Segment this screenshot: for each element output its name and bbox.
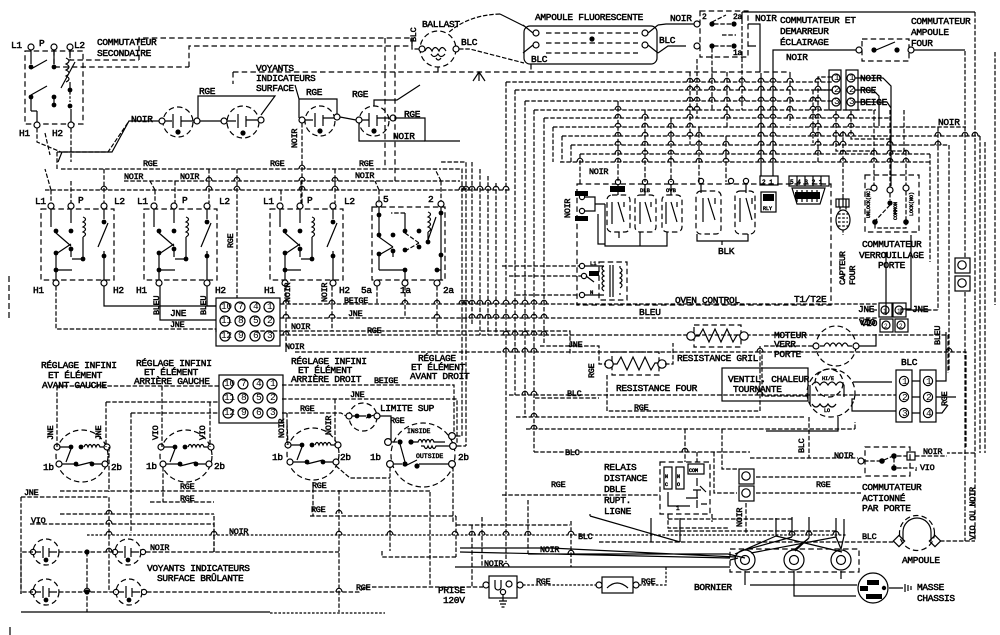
svg-text:NOIR: NOIR [938, 117, 960, 128]
svg-text:3: 3 [834, 96, 840, 107]
wire JNE bus [280, 286, 877, 318]
wire RGE long bus [280, 286, 948, 373]
wire NOIR bus (to oven control) [254, 331, 570, 355]
wire harness cascade row4 [534, 110, 876, 452]
svg-text:P: P [39, 38, 45, 49]
wire SW2-H1 to J1 [160, 286, 216, 320]
wire element bottom drops [336, 466, 453, 551]
wire RGE row to moteur [607, 346, 813, 411]
relay K-LINE (relais distance) [660, 462, 710, 514]
wire left riser from secondaire [37, 121, 129, 169]
svg-text:BLC: BLC [578, 532, 593, 542]
svg-text:LOCK(NO): LOCK(NO) [909, 192, 915, 216]
svg-text:LIMITE SUP: LIMITE SUP [380, 403, 435, 414]
svg-text:2: 2 [926, 392, 932, 403]
right-edge connector JR1 [955, 258, 970, 273]
wire bornier to masse [745, 571, 857, 596]
relay DOOR RLY [761, 192, 776, 212]
wire JNE to resistance four [540, 346, 606, 364]
svg-text:DBLE: DBLE [604, 484, 626, 495]
wire prise to fuse [523, 584, 596, 586]
svg-text:1b: 1b [272, 452, 283, 463]
svg-text:RGE: RGE [199, 86, 216, 97]
wire ballast right to bus [459, 49, 524, 63]
svg-text:L1: L1 [263, 196, 274, 207]
svg-text:JNE: JNE [568, 340, 583, 350]
resistor RESISTANCE FOUR [605, 352, 666, 375]
svg-text:H2: H2 [113, 285, 124, 296]
wire RGE rows [60, 447, 430, 516]
wire RGE drop to J1 [236, 169, 238, 298]
fuse F1 (line break) [596, 577, 639, 593]
door lock switch SW-VERROUILLAGE [865, 175, 919, 232]
svg-text:ARRIÈRE GAUCHE: ARRIÈRE GAUCHE [134, 376, 210, 387]
wire JNE left loop [21, 497, 109, 594]
ballast (lamp ballast coil) [419, 31, 459, 67]
svg-text:DEMARREUR: DEMARREUR [780, 26, 829, 37]
relay K2 [635, 179, 656, 232]
switch SW-SECONDAIRE (commutateur secondaire) [25, 44, 83, 128]
svg-text:L2: L2 [74, 40, 85, 51]
svg-text:LIGNE: LIGNE [604, 506, 632, 517]
svg-text:OVB: OVB [666, 187, 677, 194]
svg-text:RGE: RGE [270, 159, 285, 169]
indicator lamp DS5 (surface brulante) [30, 539, 59, 565]
wire oven control left feeds [502, 266, 582, 295]
wire fuse right [639, 567, 666, 585]
svg-text:SURFACE BRÛLANTE: SURFACE BRÛLANTE [157, 573, 244, 584]
svg-text:RGE: RGE [390, 416, 405, 426]
svg-text:OUTSIDE: OUTSIDE [416, 453, 443, 460]
svg-text:RGE: RGE [359, 159, 374, 169]
svg-text:VIO OU NOIR: VIO OU NOIR [968, 487, 978, 540]
svg-text:1: 1 [849, 72, 855, 83]
svg-text:RGE: RGE [312, 481, 327, 491]
svg-text:L1: L1 [137, 196, 148, 207]
capteur four sensor [836, 199, 850, 235]
indicator lamp DS8 [113, 579, 142, 605]
wire harness cascade row2 [515, 90, 833, 395]
svg-text:O: O [677, 482, 680, 488]
svg-text:VIO: VIO [198, 425, 208, 440]
svg-text:NOIR: NOIR [285, 342, 304, 352]
svg-text:NOIR: NOIR [355, 171, 374, 181]
switch SW-AMPOULE-FOUR [856, 39, 914, 61]
wire BEIGE row to element [282, 385, 454, 433]
right-edge connector JR2 [955, 276, 970, 291]
svg-text:BORNIER: BORNIER [694, 582, 732, 593]
svg-text:1: 1 [834, 72, 840, 83]
svg-text:NOIR: NOIR [324, 416, 334, 435]
wire harness cascade row1 [506, 82, 833, 562]
svg-text:2: 2 [902, 392, 908, 403]
svg-text:RELAIS: RELAIS [604, 462, 637, 473]
receptacle PRISE 120V [483, 576, 523, 607]
svg-text:OVEN CONTROL: OVEN CONTROL [675, 295, 740, 306]
indicator lamp DS3 (surface) [299, 106, 340, 136]
wire fan to J4 [766, 332, 956, 431]
svg-text:1b: 1b [146, 461, 157, 472]
door switch SW-PORTE [858, 447, 915, 476]
switch starter (demarreur eclairage) [694, 11, 748, 57]
wires J2 rows to RS1/RS2 [57, 386, 219, 447]
svg-text:COMMUTATEUR: COMMUTATEUR [862, 239, 922, 250]
switch block SW1 (surface L1/P/L2 - H1/H2) [41, 203, 114, 286]
connector J4 (fan 1-2-3) [896, 370, 912, 422]
wire lamp row2 [21, 591, 116, 593]
display module (clock) [792, 188, 825, 204]
wire DS1-DS2 junction [200, 120, 221, 122]
connector JM2 [739, 486, 754, 501]
svg-text:RGE: RGE [352, 89, 369, 100]
svg-text:CAPTEUR: CAPTEUR [838, 251, 848, 285]
wire DS4 right to NOIR bus [396, 118, 460, 141]
infinite switch RS3 (arriere droit) [285, 428, 341, 480]
wire demarreur to bus [748, 24, 760, 72]
wire JNE row [865, 309, 930, 311]
wire ballast left from bus [412, 38, 419, 49]
wire far right edge [985, 52, 995, 453]
svg-text:NOIR: NOIR [290, 129, 300, 148]
svg-text:C: C [665, 482, 668, 488]
svg-text:H2: H2 [52, 128, 63, 139]
svg-text:2: 2 [834, 84, 840, 95]
wire BLK bracket [697, 234, 748, 245]
svg-text:BLC: BLC [901, 357, 918, 368]
svg-text:RGE: RGE [551, 480, 566, 490]
wire NOIR to DS1 [58, 121, 159, 162]
wire harness row NOIR long [553, 127, 966, 310]
svg-text:1b: 1b [43, 462, 54, 473]
svg-text:5 4 3 2 1: 5 4 3 2 1 [790, 179, 823, 186]
svg-text:RUPT.: RUPT. [604, 495, 631, 506]
wire harness cascade row5 [544, 118, 890, 344]
wire harness row9 [580, 154, 930, 262]
wire NOIR drop to RS3 [287, 413, 288, 445]
wire SW1-H2 to J1 [104, 286, 216, 306]
relay K1 (oven control) [607, 179, 630, 232]
infinite switch RS1 (avant gauche) [54, 430, 110, 482]
wire fluo right to starter [658, 24, 694, 53]
wire RGE feed DS4 [374, 85, 420, 106]
wire fan to left [762, 352, 807, 396]
svg-text:2b: 2b [111, 462, 122, 473]
svg-text:JNE: JNE [170, 308, 187, 319]
svg-text:RGE: RGE [143, 159, 158, 169]
svg-text:FOUR: FOUR [848, 266, 858, 285]
svg-text:NOIR: NOIR [320, 283, 330, 302]
svg-text:NOIR: NOIR [589, 167, 608, 177]
wire bottom rail dotted [270, 612, 385, 614]
wire top bus drops [385, 38, 395, 181]
svg-text:H1: H1 [33, 285, 44, 296]
page edge dash left [8, 276, 10, 320]
wire BEIGE bus [280, 286, 877, 304]
svg-text:5a: 5a [361, 285, 372, 296]
svg-text:PAR PORTE: PAR PORTE [862, 503, 911, 514]
oven control module box [577, 184, 831, 305]
wire rows above bornier [668, 519, 836, 531]
wire DS3-DS4 junction [340, 117, 356, 120]
svg-text:H2: H2 [215, 285, 226, 296]
wire verrouillage drops [874, 139, 906, 187]
svg-text:BLEU: BLEU [933, 326, 943, 345]
svg-text:NOIR: NOIR [131, 114, 153, 125]
wire NOIR long bus (lamps to right) [146, 514, 483, 592]
svg-text:1a: 1a [733, 49, 743, 58]
svg-text:1: 1 [902, 376, 908, 387]
svg-text:COMMUTATEUR: COMMUTATEUR [97, 37, 157, 48]
terminal block BORNIER [730, 549, 859, 572]
svg-text:AMPOULE FLUORESCENTE: AMPOULE FLUORESCENTE [535, 12, 644, 23]
svg-text:RGE: RGE [226, 233, 236, 248]
svg-text:2: 2 [702, 13, 707, 22]
svg-text:BLEU: BLEU [639, 307, 661, 318]
svg-text:NOIR: NOIR [180, 172, 199, 182]
svg-text:COMMUTATEUR ET: COMMUTATEUR ET [780, 15, 856, 26]
svg-text:JNE: JNE [46, 425, 56, 440]
wire oven control risers [618, 101, 726, 182]
svg-text:RGE: RGE [311, 505, 326, 515]
wire right fan rows [509, 395, 896, 452]
wire motor right to VIO conn [859, 235, 911, 346]
leader line from SW-SECONDAIRE [45, 133, 50, 155]
svg-text:H1: H1 [136, 285, 147, 296]
chassis ground plug MASSE [858, 573, 888, 603]
svg-text:SECONDAIRE: SECONDAIRE [97, 48, 152, 59]
wire SW1-H1 to J1 [56, 286, 216, 333]
svg-text:RESISTANCE FOUR: RESISTANCE FOUR [616, 383, 698, 394]
svg-text:FOUR: FOUR [911, 38, 933, 49]
svg-text:UNLOCK(NC): UNLOCK(NC) [866, 188, 872, 218]
wire NOIR dotted bus to right [87, 534, 847, 536]
svg-text:L1: L1 [11, 40, 22, 51]
oven control input terminals [575, 191, 605, 221]
svg-text:BLK: BLK [718, 246, 735, 257]
wire fluo bottom bus BLC [233, 64, 790, 125]
svg-text:NOIR: NOIR [277, 419, 287, 438]
svg-text:JNE: JNE [170, 320, 185, 330]
wire J3 leads right [855, 78, 891, 186]
svg-text:ARRIÈRE DROIT: ARRIÈRE DROIT [291, 374, 362, 385]
wire harness row8 [571, 145, 949, 371]
svg-text:HI/E: HI/E [822, 376, 834, 382]
wire mid risers [382, 492, 571, 587]
svg-text:NOIR: NOIR [393, 131, 415, 142]
wire door switch leads [903, 456, 947, 470]
wire NOIR DS4 left [359, 123, 425, 141]
svg-text:H2: H2 [339, 285, 350, 296]
svg-text:VIO: VIO [920, 463, 935, 473]
svg-text:H1: H1 [264, 285, 275, 296]
svg-text:3: 3 [902, 408, 908, 419]
wire right edge drop to ampoule [947, 12, 975, 541]
svg-text:PORTE: PORTE [774, 349, 802, 360]
connector J1 (surface harness upper) [216, 298, 280, 346]
relay K4 [696, 178, 721, 234]
svg-text:RGE: RGE [816, 480, 831, 490]
svg-text:SURFACE: SURFACE [256, 83, 294, 94]
svg-text:RGE: RGE [356, 583, 371, 593]
svg-text:2: 2 [849, 84, 855, 95]
wire vertical x339 [338, 490, 340, 612]
wire surface bus RGE row [45, 169, 510, 190]
wire door switch NOIR row [750, 457, 858, 459]
wire capteur riser [842, 131, 844, 199]
svg-text:2 1: 2 1 [762, 179, 773, 186]
svg-text:N: N [590, 289, 593, 296]
svg-text:BLC: BLC [797, 438, 807, 453]
svg-text:L1: L1 [590, 260, 597, 267]
connector J2 (surface harness lower) [219, 375, 283, 423]
wire SW3-H2 NOIR drop [331, 286, 333, 331]
wire top dashed bus to ballast [54, 38, 412, 67]
svg-text:H1: H1 [19, 128, 30, 139]
indicator lamp DS2 (surface) [221, 106, 264, 138]
infinite switch RS2 (arriere gauche) [158, 430, 214, 482]
motor M1 (verrouillage porte) [813, 326, 859, 366]
svg-text:BLC: BLC [531, 54, 548, 65]
svg-text:2b: 2b [214, 461, 225, 472]
relay K5 [728, 178, 755, 234]
switch block SW2 [144, 203, 217, 286]
svg-text:VIO: VIO [861, 318, 878, 329]
wire demarreur drops [690, 26, 742, 145]
wire lamp row1 [21, 552, 115, 594]
svg-text:RLY: RLY [763, 206, 772, 212]
wire J2 to limit [282, 399, 457, 443]
svg-text:COMMON: COMMON [893, 202, 899, 220]
indicator lamp DS6 [112, 539, 141, 565]
switch block SW3 [270, 203, 343, 286]
svg-text:2: 2 [428, 194, 434, 205]
svg-text:1a: 1a [400, 285, 411, 296]
svg-text:RGE: RGE [306, 87, 323, 98]
page corner mark [9, 627, 11, 635]
svg-text:P: P [78, 195, 84, 206]
svg-text:NOIR: NOIR [283, 283, 293, 302]
indicator lamp DS7 [30, 579, 59, 605]
transformer T1 (oven control) [579, 260, 627, 300]
svg-text:VIO: VIO [151, 425, 161, 440]
indicator lamp DS4 (surface) [356, 106, 396, 136]
svg-text:INSIDE: INSIDE [407, 428, 431, 435]
wire fluo left to top bus [500, 14, 524, 26]
svg-text:JNE: JNE [94, 425, 104, 440]
svg-text:T1/T2E: T1/T2E [794, 294, 827, 305]
svg-text:NOIR: NOIR [786, 52, 808, 63]
svg-text:COMMUTATEUR: COMMUTATEUR [911, 16, 971, 27]
wire BLC row [535, 343, 673, 398]
svg-text:AMPOULE: AMPOULE [911, 27, 949, 38]
svg-text:2b: 2b [340, 452, 351, 463]
wire element right feeds [456, 318, 466, 446]
svg-text:2a: 2a [733, 13, 743, 22]
svg-text:LO: LO [824, 408, 830, 414]
wire bornier fan-in [455, 514, 844, 567]
wire relais feeds [668, 429, 728, 528]
svg-text:N: N [677, 474, 680, 480]
wire harness cascade row3 [525, 101, 833, 417]
svg-text:4: 4 [926, 408, 932, 419]
wire masse lead + ground [889, 584, 911, 592]
svg-text:AMPOULE: AMPOULE [902, 555, 940, 566]
connector JNE squares [879, 303, 906, 317]
wire fan drop [808, 417, 810, 458]
svg-text:2b: 2b [458, 452, 469, 463]
wire lamp column [86, 552, 88, 612]
wire sw ampoule four right [914, 49, 965, 51]
wire crossing hops [84, 78, 978, 592]
indicator lamp DS1 (surface) [159, 107, 200, 137]
wire harness row7 [562, 136, 980, 453]
svg-text:NOIR: NOIR [670, 13, 692, 24]
box VENTIL label [722, 368, 808, 401]
svg-text:BLC: BLC [862, 532, 877, 542]
svg-text:1: 1 [926, 376, 932, 387]
junction dot row1 [84, 549, 89, 554]
svg-text:NOIR: NOIR [124, 172, 143, 182]
svg-text:RGE: RGE [940, 391, 950, 406]
connector J5 (fan mate) [920, 370, 936, 422]
wire BEIGE drop to element [817, 303, 819, 305]
svg-text:P: P [307, 195, 313, 206]
svg-text:NOIR: NOIR [923, 447, 942, 457]
svg-text:1b: 1b [370, 452, 381, 463]
wire ampoule leads [599, 453, 975, 542]
svg-text:RGE: RGE [587, 363, 597, 378]
svg-text:NOIR: NOIR [834, 451, 853, 461]
svg-text:DISTANCE: DISTANCE [604, 473, 648, 484]
wire limit to double element [380, 416, 391, 442]
junction dot row2 [84, 589, 89, 594]
wire NOIR long bus [295, 352, 966, 447]
svg-text:BLC: BLC [409, 27, 419, 42]
limit switch LIMITE SUP [346, 403, 380, 431]
wire SW2-H2 to J1 [207, 286, 216, 306]
connector JM1 (relay to door circuit) [739, 469, 754, 484]
svg-text:5: 5 [383, 194, 389, 205]
svg-text:NOIR: NOIR [563, 199, 573, 218]
connector VIO squares [880, 319, 908, 332]
wire harness row10 [560, 161, 930, 163]
svg-text:BLC: BLC [461, 37, 478, 48]
relay K3 [662, 179, 682, 232]
connector J3 (NOIR/RGE/BEIGE) [829, 70, 858, 110]
svg-text:NOIR: NOIR [755, 13, 777, 24]
resistor RESISTANCE GRIL [687, 325, 748, 347]
wire relay bottom rail [598, 204, 667, 246]
fluorescent lamp tube [523, 25, 658, 64]
heating element EL-AVANT-DROIT (double) [385, 423, 457, 487]
wire RGE feed DS3 [295, 85, 337, 118]
wire RGE feed bus [198, 96, 275, 118]
wire right column hops [472, 162, 496, 335]
svg-text:COMMUTATEUR: COMMUTATEUR [862, 482, 922, 493]
oven lamp AMPOULE [893, 516, 940, 551]
wire verrouillage riser links [874, 110, 904, 151]
wire top bus NOIR [742, 12, 975, 24]
svg-text:BLC: BLC [659, 35, 676, 46]
svg-text:120V: 120V [443, 595, 465, 606]
svg-text:BLC: BLC [565, 448, 580, 458]
wire drop to RS3 right [334, 399, 336, 445]
svg-text:P: P [182, 195, 188, 206]
chassis arrow on BLC rail [473, 72, 485, 81]
svg-text:CHASSIS: CHASSIS [917, 593, 955, 604]
connector strip 5-1 (oven control top) [789, 176, 829, 186]
svg-text:2a: 2a [443, 285, 454, 296]
